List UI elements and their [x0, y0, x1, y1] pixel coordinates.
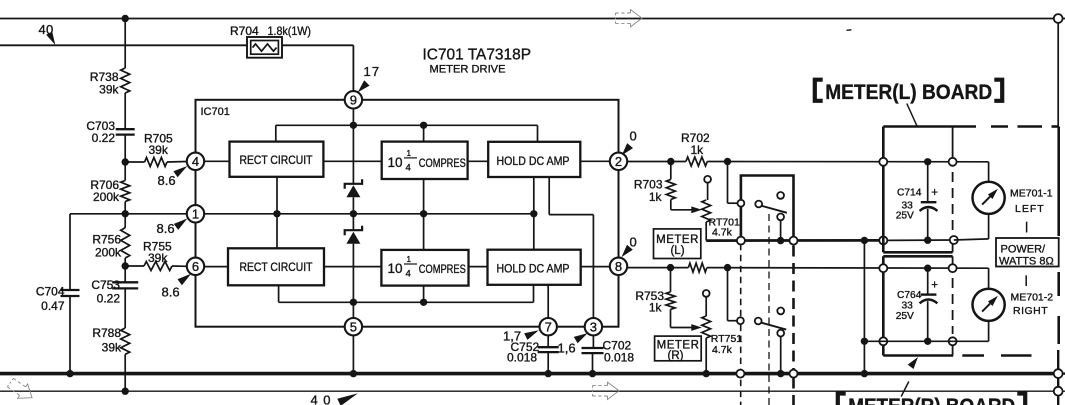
- svg-text:R756: R756: [92, 232, 121, 246]
- svg-text:4.7k: 4.7k: [712, 226, 733, 238]
- block: 10^1/4 COMPRES lower: [381, 250, 468, 286]
- wire: centre column pin9 net down to zener D1: [352, 125, 354, 184]
- node: S2 output to bus: [777, 370, 784, 377]
- wire: return rail corner to meter ME701-1 minus: [954, 239, 989, 240]
- wire: lower inner rail: [279, 301, 534, 303]
- svg-text:ME701-2: ME701-2: [1011, 292, 1054, 304]
- pin: bus at switch board left dash: [736, 370, 744, 378]
- pin: lower hot rail at board R inner edge: [949, 264, 957, 272]
- dashed boundary: switch board left: [740, 244, 742, 317]
- svg-text:33: 33: [902, 301, 914, 312]
- svg-text:8.6: 8.6: [162, 285, 180, 300]
- node: pin1 rail RECT column junction: [273, 210, 280, 217]
- flow arrow bottom middle: [593, 382, 620, 399]
- svg-text:IC701: IC701: [201, 106, 230, 118]
- svg-text:200k: 200k: [95, 245, 122, 259]
- wire: HOLD1 bottom to pin1 rail: [533, 177, 535, 214]
- svg-text:1: 1: [192, 206, 199, 221]
- node: pin1 rail centre column junction: [350, 210, 357, 217]
- board METER(R) right edge dashes on page border: [1057, 272, 1060, 296]
- pin 8 terminal circle: [610, 258, 627, 275]
- wire: ground link vertical x=864: [863, 240, 865, 373]
- wire: C703 to node at R705: [124, 135, 126, 162]
- capacitor C714 33/25V electrolytic: [927, 162, 929, 202]
- wire: drop from upper junction to switch S1 input: [727, 162, 729, 204]
- wire: board R return rail: [864, 340, 953, 342]
- switch S1 box outline: [741, 176, 794, 238]
- block: HOLD DC AMP lower: [488, 250, 581, 285]
- block: 10^1/4 COMPRES upper: [382, 142, 468, 179]
- svg-text:COMPRES: COMPRES: [419, 158, 466, 170]
- bottom line 40: [0, 390, 1054, 392]
- wire: zener D2 to lower rail: [352, 244, 354, 303]
- resistor R706 200k: [121, 181, 130, 202]
- switch S2 contact C (NC): [777, 308, 784, 315]
- node: top rail centre column junction: [350, 122, 357, 129]
- svg-text:4: 4: [406, 269, 411, 280]
- resistor R705 39k: [145, 158, 167, 167]
- board METER(L) outline left edge: [882, 127, 885, 253]
- node: junction R753 tap lower: [667, 264, 674, 271]
- switch S1 contact D: [777, 214, 784, 221]
- pin: return rail at board L edge: [879, 236, 887, 244]
- pin: hot rail at board L inner edge: [949, 158, 957, 166]
- switch S1 arm: [762, 206, 787, 213]
- wire: C753 to R788: [124, 288, 126, 328]
- wire: C702 to bus: [592, 353, 594, 374]
- node: C704 to bus junction: [66, 370, 73, 377]
- wire: RECT1 to COMPRES1: [323, 160, 381, 162]
- svg-text:0: 0: [630, 234, 637, 249]
- pin 4 terminal circle: [187, 153, 204, 170]
- pin: bus at switch board right dash: [790, 370, 798, 378]
- board R inner edge lower solid: [952, 345, 954, 356]
- svg-text:6: 6: [192, 259, 199, 274]
- svg-text:(R): (R): [668, 350, 684, 362]
- svg-text:0.47: 0.47: [41, 299, 65, 313]
- svg-text:3: 3: [590, 319, 597, 334]
- wire: C704 branch vertical: [69, 214, 71, 290]
- block: RECT CIRCUIT upper: [230, 142, 324, 177]
- wire: drop from lower junction to switch S2 input: [727, 268, 729, 321]
- capacitor C764 33/25V electrolytic: [927, 268, 929, 294]
- svg-text:1k: 1k: [649, 190, 663, 204]
- resistor R704 symbol (boxed, 1.8k 1W): [247, 37, 282, 58]
- node: S1 output to return rail: [777, 237, 784, 244]
- pin: top line right edge connector: [1054, 14, 1063, 23]
- resistor R753 1k: [666, 292, 675, 310]
- wire: inner top rail: [276, 124, 538, 126]
- svg-text:+: +: [931, 187, 938, 199]
- svg-text:0.22: 0.22: [97, 291, 121, 305]
- wire: node to R705: [125, 161, 144, 163]
- svg-text:4.7k: 4.7k: [712, 344, 733, 356]
- zener diode D2 lower: [345, 226, 362, 236]
- page border right vertical: [1057, 23, 1059, 127]
- wire: pin1 rail down to RECT2 top: [276, 214, 278, 249]
- leader: METER(R) BOARD label to board: [901, 382, 909, 397]
- wire: pin1 rail down to HOLD2 top: [533, 214, 535, 250]
- node: junction C703/R705/R706: [122, 158, 129, 165]
- svg-text:IC701 TA7318P: IC701 TA7318P: [423, 46, 532, 63]
- node: C764 bottom junction: [924, 338, 931, 345]
- svg-text:7: 7: [545, 319, 552, 334]
- node: lower rail COMPRES2 junction: [420, 299, 427, 306]
- arrow: RT701 wiper: [691, 206, 702, 213]
- wire: pin3 to C702: [592, 336, 594, 348]
- wire: R753 to RT751 wiper: [670, 309, 672, 327]
- wire: pin1 net horizontal: [70, 213, 187, 215]
- resistor R756 200k: [121, 228, 130, 258]
- capacitor C704 0.47: [61, 289, 80, 291]
- wire: RECT2 bottom drop to lower rail: [278, 285, 280, 302]
- pin 3 terminal circle: [585, 318, 602, 335]
- potentiometer RT701 4.7k: [704, 176, 711, 183]
- svg-text:+: +: [931, 280, 938, 292]
- svg-text:METER DRIVE: METER DRIVE: [430, 64, 506, 76]
- wire: R705 to pin 4: [167, 161, 187, 164]
- pin: return rail at switch board right edge: [790, 237, 798, 245]
- svg-text:0: 0: [630, 128, 637, 143]
- svg-text:R704: R704: [230, 24, 259, 38]
- svg-text:4: 4: [192, 154, 199, 169]
- resistor R703 1k: [666, 179, 675, 199]
- pin 6 terminal circle: [187, 258, 204, 275]
- capacitor C753 0.22: [112, 281, 138, 283]
- svg-text:8: 8: [615, 259, 622, 274]
- potentiometer RT751 4.7k: [703, 290, 710, 297]
- svg-text:5: 5: [350, 319, 357, 334]
- node: C714 top junction: [924, 158, 931, 165]
- svg-text:39k: 39k: [99, 83, 119, 97]
- node: pin1 rail HOLD column junction: [530, 210, 537, 217]
- svg-text:1k: 1k: [649, 300, 663, 314]
- svg-text:METER(L) BOARD: METER(L) BOARD: [825, 81, 992, 104]
- resistor R788 39k: [121, 328, 130, 354]
- svg-text:C764: C764: [897, 290, 922, 301]
- arrow for 17 at pin 9: [358, 80, 370, 92]
- wire: lower rail up to HOLD2 bottom: [533, 285, 535, 303]
- wire: C704 to ground bus: [69, 296, 71, 374]
- wire: C752 to bus: [547, 352, 549, 374]
- wire: R703 to RT701 wiper: [670, 200, 672, 210]
- wire: drop from R704 line down to pin 9: [352, 45, 354, 91]
- node: C764 top junction: [924, 265, 931, 272]
- wire: RECT1 bottom to pin1 rail: [276, 177, 278, 214]
- meter ME701-1 LEFT: [973, 182, 1005, 214]
- wire: HOLD1 to pin 2: [580, 160, 609, 162]
- wire: centre column to pin 5: [352, 302, 354, 317]
- leader: POWER box to meter1: [1026, 222, 1028, 233]
- arrow for bottom 40: [337, 393, 358, 405]
- svg-text:0.018: 0.018: [604, 351, 634, 365]
- pin 7 terminal circle: [540, 318, 557, 335]
- pin: bottom line right edge connector: [1054, 387, 1063, 396]
- svg-text:39k: 39k: [149, 143, 169, 157]
- dashed link: switch gang coupling: [768, 214, 770, 405]
- svg-text:LEFT: LEFT: [1015, 203, 1045, 215]
- box label METER (R): [655, 336, 702, 361]
- svg-text:RIGHT: RIGHT: [1013, 305, 1048, 317]
- wire: second line from left edge to R704: [0, 44, 247, 46]
- wire: pin9 down to inner top rail: [352, 109, 354, 126]
- board L inner edge upper solid: [952, 127, 954, 159]
- resistor R738 39k: [121, 68, 130, 93]
- switch S2 contact A: [737, 317, 744, 324]
- node: junction R703 tap upper: [667, 158, 674, 165]
- node: top rail COMPRES1 junction: [420, 122, 427, 129]
- capacitor C702 0.018: [582, 347, 604, 349]
- pin: return rail at board L inner edge: [950, 236, 958, 244]
- pin: bus right edge connector: [1054, 369, 1063, 378]
- zener diode D1 upper: [345, 179, 362, 189]
- arrow for 1,7 at pin 7: [524, 330, 539, 340]
- node: return rail to ground link: [861, 237, 868, 244]
- wire: S2 contact D to ground bus: [780, 337, 782, 374]
- svg-text:25V: 25V: [896, 211, 914, 222]
- wire: COMPRES1 to HOLD1: [468, 160, 489, 162]
- svg-text:0.018: 0.018: [507, 351, 537, 365]
- node: junction switch drop upper: [724, 158, 731, 165]
- svg-text:39k: 39k: [148, 251, 168, 265]
- node: lower rail centre column junction: [350, 299, 357, 306]
- svg-text:200k: 200k: [93, 190, 120, 204]
- svg-text:HOLD DC AMP: HOLD DC AMP: [497, 156, 570, 168]
- svg-text:25V: 25V: [896, 311, 914, 322]
- label POWER/WATTS 8ohm box: [996, 238, 1059, 267]
- wire: COMPRES2 to HOLD2: [469, 266, 488, 268]
- board METER(R) left edge: [882, 256, 885, 355]
- capacitor C703 0.22: [116, 128, 135, 130]
- wire: pin 1 inner rail: [205, 213, 534, 215]
- ground bus (thick): [0, 372, 1054, 376]
- pin 1 terminal circle: [187, 205, 204, 222]
- switch S1 contact A: [738, 200, 745, 207]
- svg-text:RECT CIRCUIT: RECT CIRCUIT: [240, 262, 313, 274]
- svg-text:4: 4: [406, 163, 411, 174]
- wire: pin2 to R702: [628, 161, 686, 163]
- capacitor C752 0.018: [538, 346, 559, 348]
- svg-text:1.8k(1W): 1.8k(1W): [268, 24, 312, 38]
- label METER(R) BOARD heading: [838, 394, 846, 405]
- svg-text:1: 1: [407, 149, 412, 158]
- wire: zener D2 from pin1 rail: [352, 214, 354, 230]
- svg-text:METER: METER: [656, 234, 699, 246]
- node: C752 to bus: [545, 370, 552, 377]
- node: ground link at bus: [861, 370, 868, 377]
- pin: return rail at switch board left edge: [737, 237, 745, 245]
- svg-text:9: 9: [350, 92, 357, 107]
- wire: RECT2 to COMPRES2: [324, 266, 381, 268]
- wire: COMPRES2 bottom to lower rail: [423, 286, 425, 303]
- wire: top supply line right stub: [1063, 18, 1065, 20]
- board L inner edge dashes: [952, 172, 954, 236]
- svg-text:10: 10: [388, 155, 403, 170]
- wire: R704 to corner above pin 9: [282, 44, 353, 46]
- svg-text:10: 10: [388, 261, 403, 276]
- node: pin1 rail COMPRES column junction: [420, 210, 427, 217]
- switch S2 contact B (pole): [755, 318, 762, 325]
- meter ME701-2 RIGHT: [973, 289, 1005, 321]
- switch S2 arm: [761, 323, 786, 330]
- dashed boundary: switch board right (thick): [792, 246, 795, 371]
- pin: hot rail enters board L: [879, 158, 887, 166]
- wire: R788 down across bus to lower line: [124, 354, 126, 391]
- wire: COMPRES1 bottom to pin1 rail: [423, 179, 425, 214]
- wire: R702 to meter(L) board: [707, 161, 988, 163]
- resistor R702 1k: [686, 157, 707, 166]
- board L inner edge lower solid: [952, 244, 954, 253]
- arrow for 0 at pin 8: [622, 245, 633, 257]
- resistor R755 39k: [144, 262, 172, 271]
- node: C702 to bus: [589, 370, 596, 377]
- leader: METER(L) BOARD label to board: [907, 104, 917, 127]
- node: C714 bottom junction: [924, 237, 931, 244]
- wire: inner top rail left drop to RECT1: [275, 125, 277, 141]
- wire: node to C753: [124, 266, 126, 282]
- node: RT751 to bus: [703, 370, 710, 377]
- svg-text:C753: C753: [91, 278, 120, 292]
- wire: inner top rail right drop to HOLD1: [537, 125, 539, 142]
- leader: POWER box to meter2: [1025, 275, 1027, 286]
- pin: lower hot rail enters board R: [879, 264, 887, 272]
- arrow for 0 at pin 2: [622, 143, 633, 155]
- node: junction switch drop lower: [724, 264, 731, 271]
- wire: board R entry drop to meter ME701-2 plus: [988, 268, 990, 289]
- svg-text:1,6: 1,6: [558, 340, 576, 355]
- svg-text:39k: 39k: [102, 340, 122, 354]
- wire: HOLD2 to pin 8: [581, 266, 610, 268]
- svg-text:8.6: 8.6: [158, 173, 176, 188]
- svg-text:2: 2: [615, 154, 622, 169]
- pin 9 terminal circle: [345, 91, 362, 108]
- wire: pin4 to RECT1: [205, 160, 230, 162]
- wire: top supply line: [0, 18, 1054, 20]
- pin 5 terminal circle: [345, 318, 362, 335]
- svg-text:8.6: 8.6: [157, 221, 175, 236]
- arrow: RT751 wiper: [691, 324, 702, 331]
- node: pin5 line to bus: [350, 370, 357, 377]
- arrow for label 40 top: [46, 32, 55, 45]
- wire: R738 to C703: [124, 93, 126, 129]
- board METER(L) outline right edge (page border): [1057, 127, 1060, 237]
- board METER(R) top edge: [883, 255, 952, 258]
- svg-text:R788: R788: [92, 326, 121, 340]
- pin: board R return rail enters board: [879, 337, 887, 345]
- svg-text:C704: C704: [36, 284, 65, 298]
- pin: board R return at inner edge: [949, 337, 957, 345]
- wire: pin7 to C752: [547, 336, 549, 348]
- svg-text:0.22: 0.22: [92, 131, 116, 145]
- wire: meter return rail (thick) RT701 to board L: [706, 239, 883, 242]
- wire: HOLD2 bottom to pin 7: [547, 285, 549, 318]
- resistor R752 1k (unlabeled): [688, 263, 706, 272]
- node: junction R756/R755/C753: [122, 262, 129, 269]
- pin 2 terminal circle: [610, 153, 627, 170]
- svg-text:METER(R) BOARD: METER(R) BOARD: [848, 395, 1015, 405]
- wire: S1 contact D to meter return rail: [780, 220, 782, 240]
- switch S1 contact B (pole): [755, 201, 762, 208]
- svg-text:COMPRES: COMPRES: [419, 264, 466, 276]
- board R inner edge dashes: [952, 278, 954, 334]
- wire: R755 to pin 6: [172, 265, 187, 267]
- switch S2 contact D: [777, 330, 784, 337]
- switch S1 contact C (NC): [777, 192, 784, 199]
- wire: drop from top rail to COMPRES1 top: [423, 125, 425, 141]
- svg-text:17: 17: [364, 64, 381, 79]
- IC U1 IC701 outline box: [196, 100, 619, 327]
- wire: pin1 rail down to COMPRES2 top: [423, 214, 425, 250]
- arrow for 8.6 at pin 4: [173, 166, 187, 177]
- node: ground link at board R return: [861, 338, 868, 345]
- flow arrow on top line: [616, 10, 643, 27]
- arrow for 8.6 at pin 6: [178, 274, 192, 286]
- board METER(L) bottom edge: [883, 251, 952, 254]
- block: RECT CIRCUIT lower: [228, 248, 324, 285]
- wire: pin6 to RECT2: [205, 266, 229, 268]
- wire: R738 branch vertical x=125: [124, 19, 126, 69]
- svg-text:(L): (L): [670, 245, 684, 257]
- svg-text:WATTS 8Ω: WATTS 8Ω: [999, 256, 1054, 268]
- svg-text:ME701-1: ME701-1: [1010, 188, 1053, 200]
- wire: HOLD1 second pin down: [548, 177, 550, 215]
- wire: resistor to board R entry: [707, 267, 989, 270]
- svg-text:C714: C714: [897, 187, 922, 198]
- svg-text:RECT CIRCUIT: RECT CIRCUIT: [240, 155, 313, 167]
- svg-text:POWER/: POWER/: [1001, 244, 1047, 256]
- arrow for 8.6 at pin 1: [174, 219, 188, 230]
- arrow: METER(R) BOARD leader arrowhead: [908, 357, 918, 369]
- label METER(L) BOARD heading: [815, 80, 823, 101]
- wire: down to pin 3: [592, 215, 594, 318]
- svg-text:40: 40: [311, 393, 336, 405]
- wire: return rail corner to meter ME701-2 minus: [954, 340, 989, 342]
- speck near board heading: [847, 29, 852, 32]
- svg-text:1k: 1k: [691, 143, 705, 157]
- board R inner edge upper solid: [952, 256, 954, 264]
- node: junction top line to R738 branch: [122, 15, 129, 22]
- arrow for 1,6 at pin 3: [574, 333, 588, 343]
- box label METER (L): [654, 229, 701, 259]
- flow arrow bottom left: [5, 375, 37, 404]
- svg-text:1: 1: [407, 255, 412, 264]
- wire: board L entry drop to meter ME701-1 plus: [988, 162, 990, 182]
- board METER(L) outline top edge: [883, 125, 976, 128]
- wire: node to R755: [125, 265, 144, 267]
- board METER(R) bottom edge: [883, 354, 953, 357]
- wire: zener D1 to pin1 rail: [352, 197, 354, 214]
- wire: HOLD1 to pin3 horizontal: [549, 214, 593, 216]
- wire: pin8 to resistor: [628, 267, 689, 269]
- wire: meter return rail inside board L: [883, 239, 954, 241]
- block: HOLD DC AMP upper: [488, 142, 580, 177]
- svg-text:HOLD DC AMP: HOLD DC AMP: [497, 263, 570, 275]
- wire: pin5 to ground bus: [352, 336, 354, 374]
- node: R788 to bottom line junction: [122, 388, 129, 395]
- node: junction R706/R756/C704 line: [122, 210, 129, 217]
